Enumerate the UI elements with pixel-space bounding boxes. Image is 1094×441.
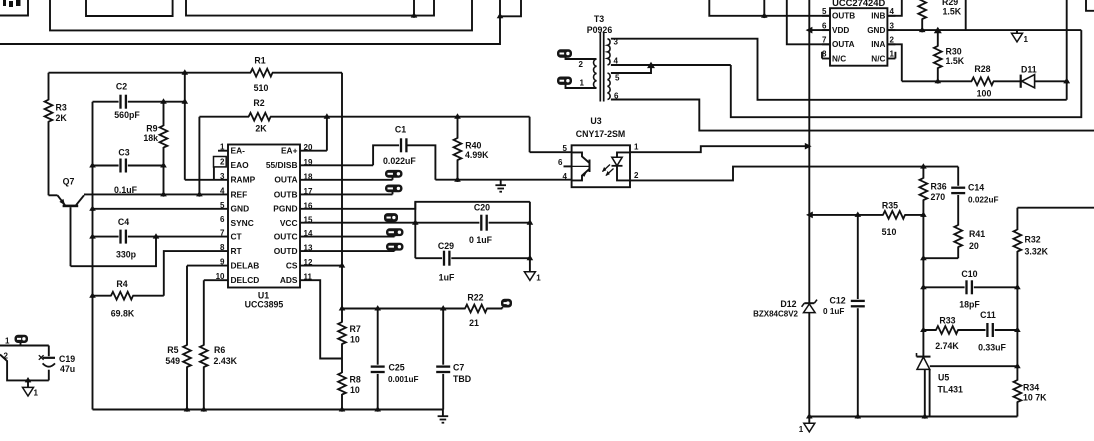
svg-text:CS: CS [286, 261, 298, 271]
svg-text:3: 3 [890, 21, 895, 30]
svg-text:2.74K: 2.74K [935, 341, 959, 351]
svg-text:R41: R41 [969, 229, 985, 239]
svg-text:2: 2 [220, 157, 225, 166]
svg-text:EAO: EAO [231, 160, 250, 170]
svg-text:1: 1 [580, 79, 585, 88]
svg-text:1.5K: 1.5K [946, 56, 965, 66]
svg-text:0.1uF: 0.1uF [114, 185, 138, 195]
svg-text:C29: C29 [438, 241, 454, 251]
svg-text:6: 6 [220, 215, 225, 224]
svg-text:C7: C7 [453, 363, 464, 373]
svg-text:4: 4 [890, 7, 895, 16]
svg-text:OUTA: OUTA [832, 40, 855, 49]
svg-text:3.32K: 3.32K [1025, 247, 1049, 257]
svg-text:330p: 330p [116, 250, 137, 260]
svg-text:R36: R36 [931, 182, 947, 192]
svg-text:SYNC: SYNC [231, 218, 254, 228]
svg-text:C10: C10 [961, 269, 977, 279]
svg-text:10 7K: 10 7K [1023, 393, 1047, 403]
svg-text:6: 6 [822, 21, 827, 30]
svg-text:CNY17-2SM: CNY17-2SM [576, 129, 625, 139]
svg-text:10: 10 [350, 335, 360, 345]
svg-text:0.022uF: 0.022uF [968, 195, 999, 204]
svg-text:R3: R3 [56, 103, 67, 113]
svg-text:R7: R7 [350, 324, 361, 334]
svg-text:GND: GND [867, 26, 885, 35]
svg-text:9: 9 [220, 258, 225, 267]
svg-text:R28: R28 [974, 64, 990, 74]
svg-text:1: 1 [5, 337, 10, 346]
svg-text:R35: R35 [882, 201, 898, 211]
svg-text:1.5K: 1.5K [943, 7, 962, 17]
svg-text:DELCD: DELCD [231, 275, 260, 285]
svg-text:R2: R2 [253, 98, 264, 108]
svg-text:TBD: TBD [453, 374, 471, 384]
svg-text:270: 270 [931, 192, 946, 202]
svg-text:549: 549 [165, 356, 180, 366]
svg-text:R40: R40 [465, 141, 481, 151]
svg-text:UCC3895: UCC3895 [245, 300, 284, 310]
svg-text:21: 21 [469, 318, 479, 328]
svg-text:RT: RT [231, 246, 243, 256]
svg-text:INA: INA [871, 40, 885, 49]
svg-text:INB: INB [871, 12, 885, 21]
svg-text:BZX84C8V2: BZX84C8V2 [753, 310, 798, 319]
svg-text:10: 10 [216, 272, 225, 281]
svg-text:R22: R22 [467, 293, 483, 303]
svg-text:GND: GND [231, 204, 250, 214]
svg-text:7: 7 [822, 36, 827, 45]
svg-text:20: 20 [969, 241, 979, 251]
svg-text:0.022uF: 0.022uF [383, 156, 416, 166]
svg-text:R32: R32 [1025, 235, 1041, 245]
svg-text:N/C: N/C [832, 54, 846, 63]
svg-text:PGND: PGND [273, 204, 297, 214]
svg-text:OUTC: OUTC [274, 232, 298, 242]
svg-text:N/C: N/C [871, 54, 885, 63]
svg-text:4: 4 [220, 186, 225, 195]
svg-text:OUTA: OUTA [274, 175, 297, 185]
svg-text:1uF: 1uF [439, 273, 455, 283]
svg-text:7: 7 [220, 229, 225, 238]
svg-text:47u: 47u [60, 364, 75, 374]
svg-text:U3: U3 [590, 116, 601, 126]
svg-text:2K: 2K [255, 124, 267, 134]
svg-text:1: 1 [536, 274, 541, 283]
svg-text:VCC: VCC [280, 218, 298, 228]
svg-text:C19: C19 [59, 354, 75, 364]
svg-text:0 1uF: 0 1uF [823, 307, 844, 316]
svg-text:0.001uF: 0.001uF [388, 375, 419, 384]
svg-text:ADS: ADS [280, 275, 298, 285]
svg-text:0 1uF: 0 1uF [469, 235, 493, 245]
svg-text:C4: C4 [118, 217, 129, 227]
svg-text:R6: R6 [214, 345, 225, 355]
svg-text:R1: R1 [254, 56, 265, 66]
svg-text:T3: T3 [594, 14, 604, 24]
svg-text:OUTD: OUTD [274, 246, 298, 256]
svg-text:2.43K: 2.43K [214, 356, 238, 366]
svg-text:C11: C11 [980, 310, 996, 320]
svg-text:2: 2 [634, 171, 639, 180]
svg-text:DELAB: DELAB [231, 261, 260, 271]
svg-text:TL431: TL431 [938, 385, 964, 395]
svg-text:5: 5 [220, 201, 225, 210]
svg-text:C25: C25 [389, 363, 405, 373]
svg-text:18pF: 18pF [959, 300, 980, 310]
svg-text:1: 1 [1024, 35, 1029, 44]
svg-text:18k: 18k [143, 133, 158, 143]
svg-text:R5: R5 [167, 345, 178, 355]
svg-text:C12: C12 [830, 295, 846, 305]
svg-text:69.8K: 69.8K [111, 309, 135, 319]
svg-text:R4: R4 [116, 279, 127, 289]
svg-text:R30: R30 [946, 47, 962, 57]
svg-text:C14: C14 [968, 182, 984, 192]
svg-text:1: 1 [634, 143, 639, 152]
svg-text:R8: R8 [350, 375, 361, 385]
svg-text:Q7: Q7 [63, 177, 75, 187]
svg-text:4.99K: 4.99K [465, 150, 489, 160]
svg-text:D11: D11 [1021, 65, 1037, 75]
svg-text:5: 5 [615, 74, 620, 83]
svg-text:1: 1 [799, 425, 804, 434]
svg-text:2: 2 [890, 36, 895, 45]
svg-text:1: 1 [890, 50, 895, 59]
svg-text:OUTB: OUTB [832, 12, 855, 21]
svg-text:100: 100 [977, 89, 992, 99]
svg-text:4: 4 [563, 172, 568, 181]
svg-text:0.33uF: 0.33uF [978, 343, 1006, 353]
svg-text:55/DISB: 55/DISB [266, 160, 298, 170]
svg-text:510: 510 [882, 227, 897, 237]
svg-text:2: 2 [579, 60, 584, 69]
svg-text:C20: C20 [474, 203, 490, 213]
svg-text:C1: C1 [395, 125, 406, 135]
svg-text:560pF: 560pF [114, 110, 140, 120]
svg-text:1: 1 [34, 389, 39, 398]
svg-text:6: 6 [558, 158, 563, 167]
svg-text:UCC27424D: UCC27424D [832, 0, 885, 8]
svg-text:EA-: EA- [231, 146, 246, 156]
svg-text:20: 20 [304, 143, 313, 152]
svg-text:8: 8 [220, 243, 225, 252]
svg-text:10: 10 [350, 385, 360, 395]
svg-text:OUTB: OUTB [274, 189, 298, 199]
svg-text:U5: U5 [938, 373, 949, 383]
svg-text:VDD: VDD [832, 26, 849, 35]
svg-text:C2: C2 [116, 82, 127, 92]
svg-text:R34: R34 [1023, 383, 1039, 393]
svg-text:D12: D12 [780, 299, 796, 309]
svg-text:C3: C3 [118, 148, 129, 158]
svg-text:510: 510 [254, 83, 269, 93]
svg-text:CT: CT [231, 232, 243, 242]
svg-text:REF: REF [231, 189, 248, 199]
svg-text:EA+: EA+ [281, 146, 298, 156]
svg-text:5: 5 [563, 144, 568, 153]
svg-text:R33: R33 [939, 316, 955, 326]
svg-text:RAMP: RAMP [231, 175, 256, 185]
svg-text:2K: 2K [56, 113, 68, 123]
svg-text:5: 5 [822, 7, 827, 16]
